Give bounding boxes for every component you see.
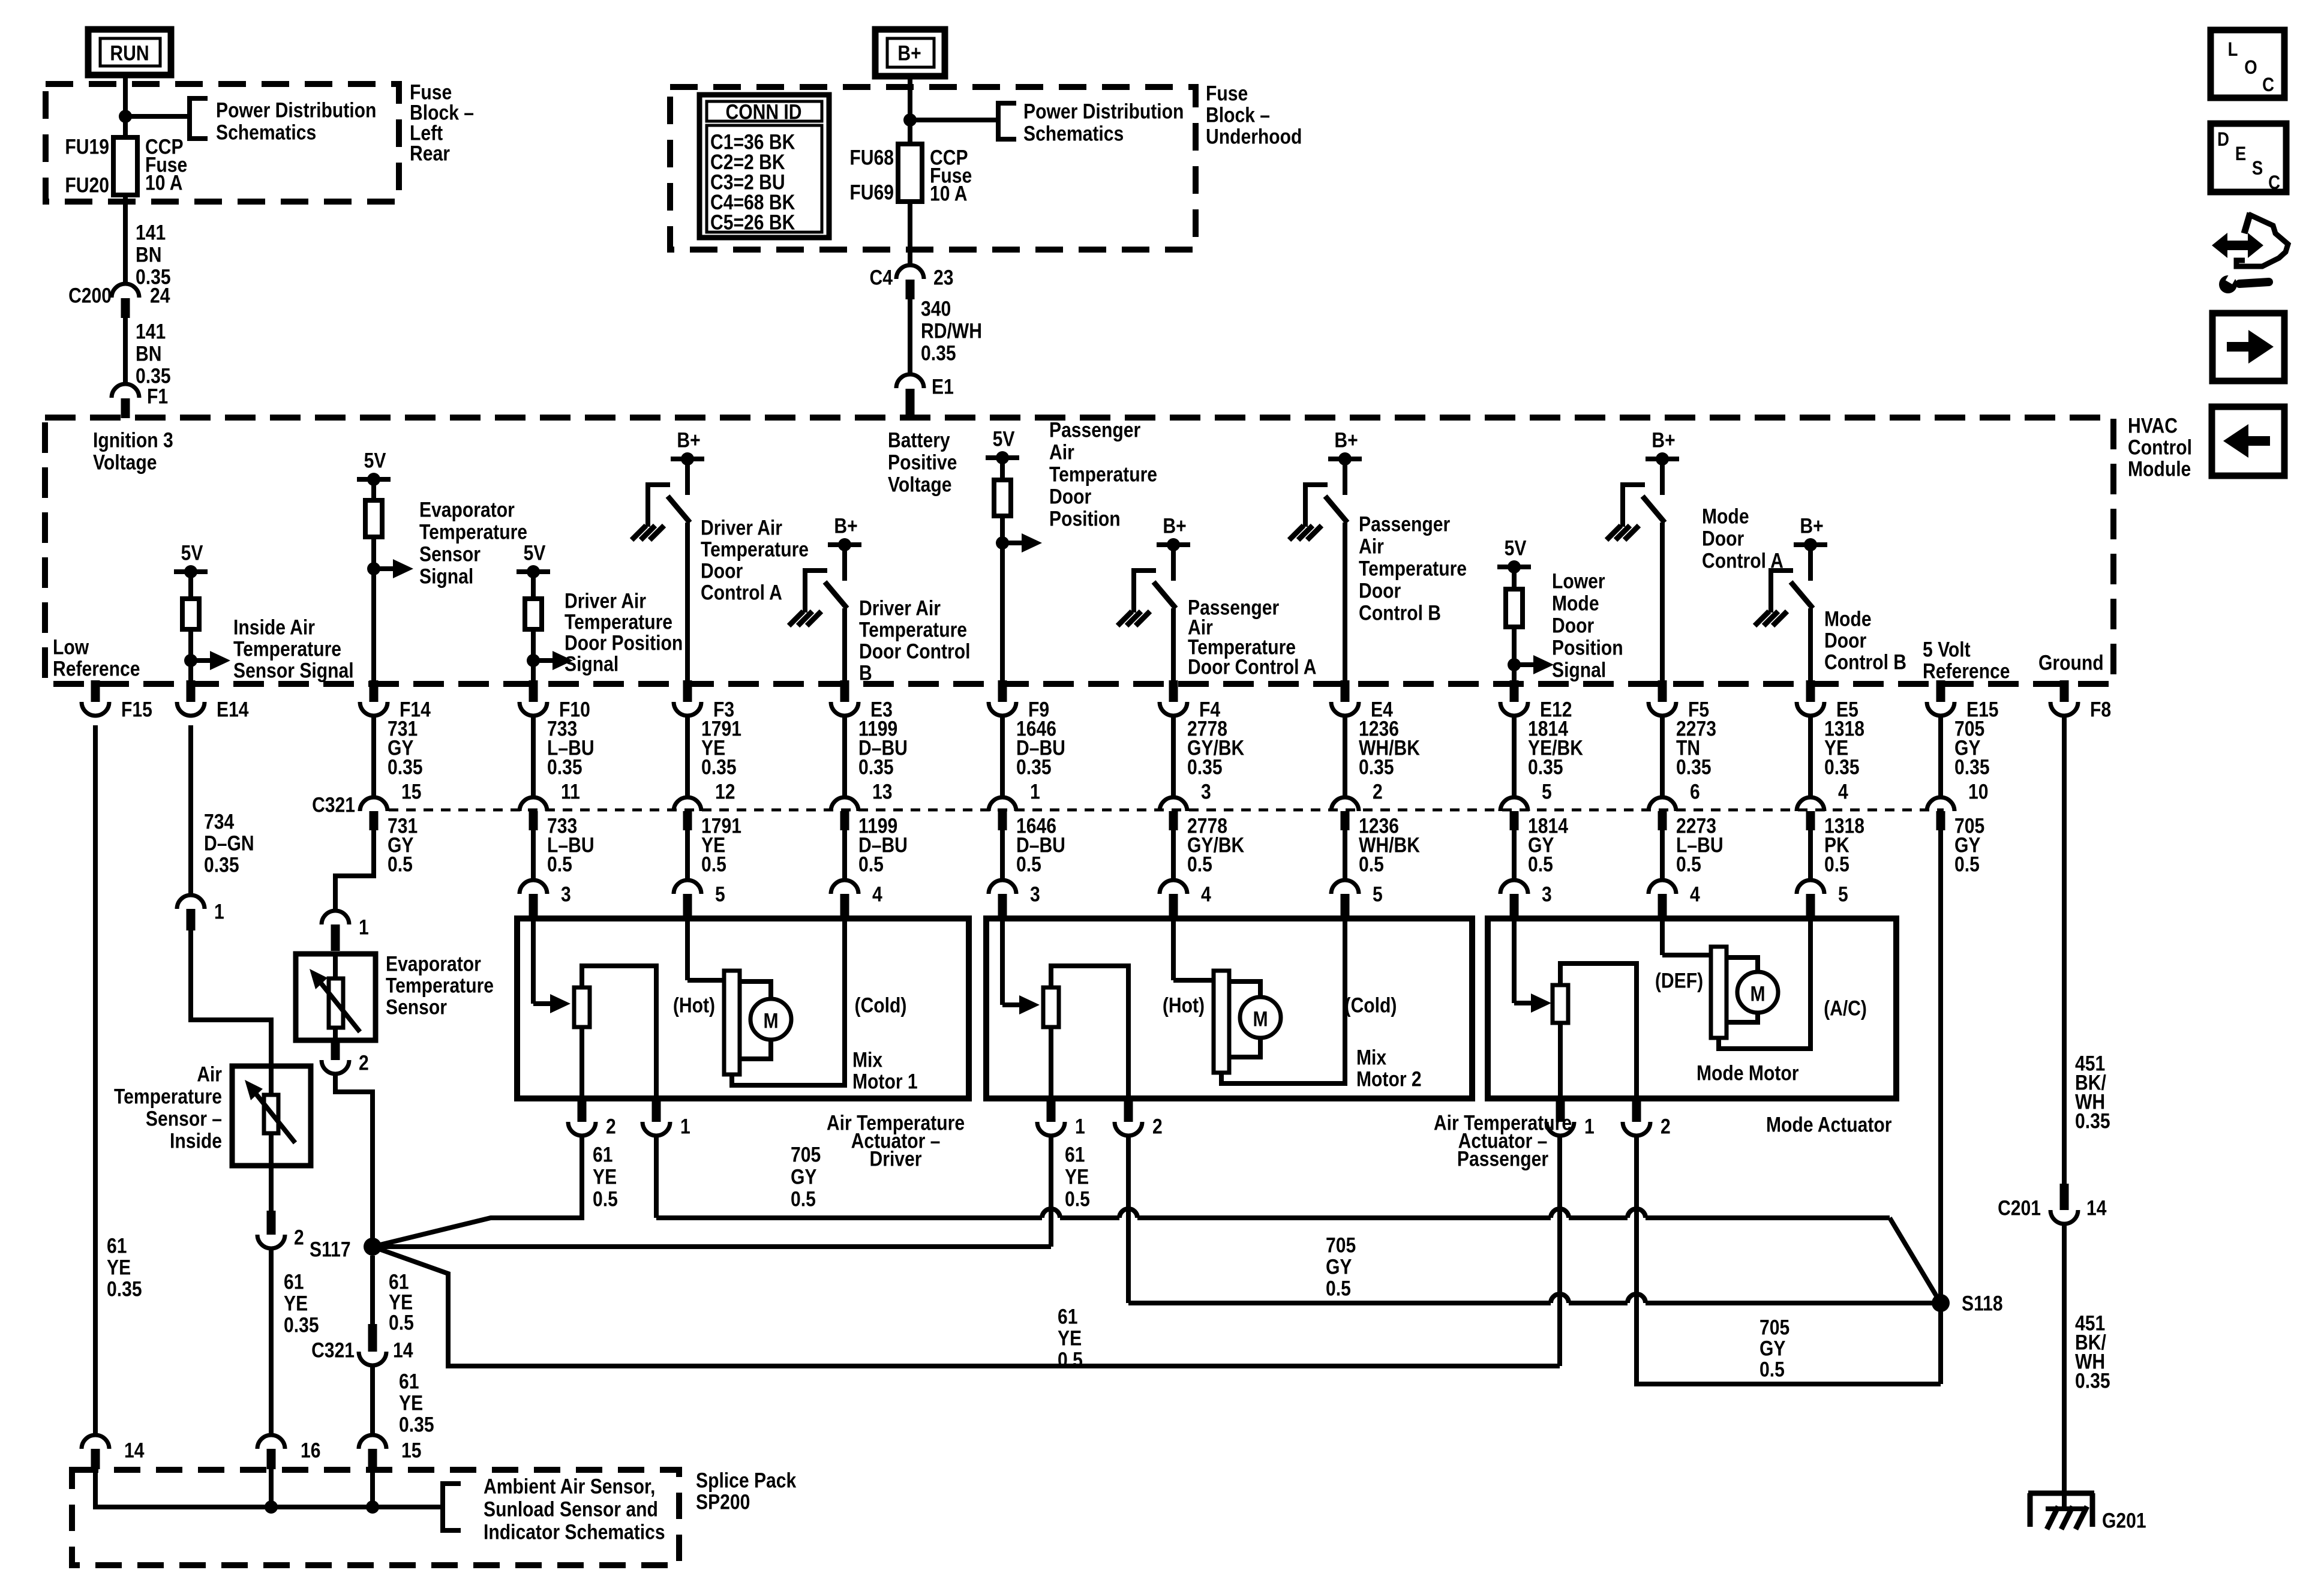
svg-text:0.35: 0.35: [1824, 755, 1860, 779]
svg-text:Inside: Inside: [170, 1128, 222, 1152]
svg-text:B+: B+: [1652, 428, 1675, 452]
svg-text:Mode Motor: Mode Motor: [1697, 1061, 1799, 1085]
svg-text:Sensor: Sensor: [419, 542, 481, 566]
svg-text:0.5: 0.5: [858, 852, 884, 876]
svg-text:Motor 1: Motor 1: [852, 1069, 918, 1093]
svg-text:3: 3: [1201, 779, 1211, 803]
actuator bottom pin 2 (driver): [578, 1100, 587, 1122]
connector C4 pin 23: [896, 265, 924, 279]
connector air temp sensor pin 2: [269, 1166, 274, 1211]
svg-text:RUN: RUN: [110, 41, 149, 65]
svg-text:15: 15: [401, 779, 421, 803]
actuator bottom pin 2 (passenger): [1124, 1100, 1133, 1122]
actuator bottom pin 1 (passenger): [1047, 1100, 1056, 1122]
svg-text:6: 6: [1690, 779, 1700, 803]
actuator pin 5 (mode): [1808, 830, 1813, 880]
svg-text:Power Distribution: Power Distribution: [216, 98, 376, 122]
svg-text:Signal: Signal: [565, 652, 618, 676]
svg-text:B+: B+: [1800, 514, 1823, 538]
wire S117 to passenger pin 1: [373, 1244, 1051, 1249]
svg-text:Passenger: Passenger: [1359, 512, 1450, 536]
svg-text:GY: GY: [791, 1164, 817, 1188]
svg-text:14: 14: [124, 1438, 144, 1462]
actuator pin 3 (driver): [531, 830, 536, 880]
svg-text:0.35: 0.35: [284, 1313, 319, 1337]
svg-text:D–GN: D–GN: [204, 831, 254, 855]
svg-text:10: 10: [1968, 779, 1988, 803]
wire RUN to fuse FU19: [123, 75, 128, 137]
connector C321 pin 11: [531, 715, 536, 798]
svg-text:0.5: 0.5: [1326, 1276, 1351, 1300]
air temperature sensor - inside box: [232, 1066, 311, 1166]
wire C321-15 jog to evap sensor pin 1: [335, 830, 374, 911]
svg-text:0.5: 0.5: [547, 852, 572, 876]
svg-text:14: 14: [393, 1338, 413, 1362]
svg-text:Low: Low: [53, 635, 89, 659]
svg-text:0.35: 0.35: [399, 1412, 434, 1436]
svg-text:0.35: 0.35: [858, 755, 894, 779]
HVAC Control Module dashed box: [45, 418, 2113, 684]
actuator bottom pin 1 (mode): [1556, 1100, 1565, 1122]
connector evap sensor pin 1: [322, 911, 349, 924]
svg-text:Driver Air: Driver Air: [701, 515, 782, 539]
svg-text:Driver Air: Driver Air: [565, 589, 646, 613]
module pin F5: [1658, 680, 1667, 702]
svg-text:0.35: 0.35: [921, 341, 956, 365]
svg-text:61: 61: [107, 1233, 127, 1257]
CONN ID table: [699, 95, 829, 238]
svg-text:Battery: Battery: [888, 428, 950, 452]
svg-text:F1: F1: [147, 384, 168, 408]
svg-text:Driver: Driver: [870, 1146, 922, 1170]
potentiometer (driver actuator): [531, 918, 536, 1004]
svg-text:0.35: 0.35: [1528, 755, 1563, 779]
wire evap pin 2 to S117: [335, 1074, 373, 1238]
svg-text:Reference: Reference: [53, 656, 140, 680]
wire F8 to C201: [2062, 715, 2067, 1184]
svg-text:0.35: 0.35: [1954, 755, 1990, 779]
svg-text:Control A: Control A: [701, 580, 782, 604]
svg-text:1: 1: [680, 1114, 690, 1138]
svg-text:4: 4: [1838, 779, 1848, 803]
wire air sensor pin 2 to SP200 pin 16: [269, 1248, 274, 1435]
wire 141 BN fuse to C200: [123, 195, 128, 284]
connector C321 pin 12: [685, 715, 690, 798]
svg-text:YE: YE: [107, 1255, 131, 1279]
icon DESC: [2211, 124, 2286, 192]
svg-text:Temperature: Temperature: [114, 1084, 222, 1108]
svg-text:Temperature: Temperature: [1359, 556, 1467, 580]
svg-text:1: 1: [214, 899, 224, 923]
connector C321 pin 3: [1171, 715, 1176, 798]
wire to power distribution bracket: [125, 114, 190, 119]
svg-text:(Hot): (Hot): [1163, 993, 1205, 1017]
svg-text:C5=26 BK: C5=26 BK: [710, 210, 795, 234]
svg-text:0.5: 0.5: [1528, 852, 1553, 876]
junction node: [366, 1500, 379, 1514]
splice pack bus wire: [95, 1469, 443, 1507]
svg-text:FU68: FU68: [849, 145, 894, 169]
icon arrow right: [2212, 313, 2284, 381]
icon LOC: [2211, 30, 2284, 98]
svg-text:Door: Door: [1359, 578, 1401, 602]
svg-text:Position: Position: [1049, 506, 1121, 530]
connector C321 pin 4: [1808, 715, 1813, 798]
svg-text:Block –: Block –: [1206, 103, 1270, 127]
svg-text:HVAC: HVAC: [2128, 413, 2178, 437]
svg-text:0.35: 0.35: [204, 852, 239, 876]
svg-text:1: 1: [1075, 1114, 1085, 1138]
svg-text:Lower: Lower: [1552, 569, 1605, 593]
splice pack pin 16: [257, 1435, 285, 1449]
svg-text:705: 705: [1759, 1315, 1789, 1339]
svg-text:(Hot): (Hot): [673, 993, 715, 1017]
svg-text:Air: Air: [197, 1062, 222, 1086]
svg-text:61: 61: [1065, 1142, 1085, 1166]
svg-text:0.5: 0.5: [389, 1310, 414, 1334]
svg-text:Module: Module: [2128, 457, 2191, 481]
svg-text:M: M: [1750, 981, 1765, 1005]
mix motor 2: [1171, 918, 1176, 980]
module pin F9: [998, 680, 1007, 702]
svg-text:0.35: 0.35: [1016, 755, 1052, 779]
svg-text:4: 4: [1201, 882, 1211, 906]
svg-text:1: 1: [1030, 779, 1040, 803]
svg-text:C321: C321: [311, 1338, 355, 1362]
evaporator temperature sensor box: [296, 954, 376, 1040]
svg-text:Voltage: Voltage: [888, 472, 951, 496]
svg-text:B+: B+: [897, 41, 921, 65]
svg-text:Control B: Control B: [1359, 601, 1441, 625]
svg-text:0.5: 0.5: [1058, 1347, 1083, 1371]
svg-text:10 A: 10 A: [930, 181, 967, 205]
svg-text:GY: GY: [1326, 1254, 1352, 1278]
svg-text:GY: GY: [1759, 1336, 1786, 1360]
mix motor 1: [685, 918, 690, 980]
connector C321 pin 13: [842, 715, 847, 798]
wire jog to sensor: [191, 930, 271, 1066]
connector C321 pin 2: [1343, 715, 1347, 798]
bracket Power Distribution Schematics: [998, 103, 1016, 139]
svg-text:4: 4: [1690, 882, 1700, 906]
svg-text:0.5: 0.5: [1676, 852, 1701, 876]
svg-text:0.35: 0.35: [2075, 1368, 2110, 1392]
svg-text:0.35: 0.35: [1676, 755, 1712, 779]
svg-text:2: 2: [606, 1114, 616, 1138]
svg-text:Mix: Mix: [1356, 1045, 1386, 1069]
module pin E4: [1341, 680, 1350, 702]
svg-text:12: 12: [715, 779, 735, 803]
svg-text:E14: E14: [217, 697, 249, 721]
svg-text:L: L: [2228, 39, 2238, 60]
svg-text:S: S: [2252, 158, 2263, 179]
svg-text:0.35: 0.35: [107, 1277, 142, 1301]
svg-text:S117: S117: [310, 1237, 351, 1261]
module pin E12: [1510, 680, 1519, 702]
connector C321 pin 15: [371, 715, 376, 798]
svg-text:B+: B+: [1163, 514, 1186, 538]
svg-text:B+: B+: [1334, 428, 1358, 452]
wire 705 GY diagonal into S118: [1890, 1218, 1941, 1303]
svg-text:Passenger: Passenger: [1049, 418, 1140, 442]
svg-text:Door Control: Door Control: [859, 639, 970, 663]
icon arrow left: [2212, 407, 2284, 476]
svg-text:Power Distribution: Power Distribution: [1023, 99, 1184, 123]
wire E14 to air temp sensor pin 1: [188, 725, 193, 895]
svg-text:Door Control A: Door Control A: [1188, 655, 1316, 679]
variable resistor air temp sensor: [269, 1066, 274, 1095]
svg-text:SP200: SP200: [696, 1490, 750, 1514]
svg-text:M: M: [763, 1008, 778, 1032]
svg-text:CONN ID: CONN ID: [725, 100, 801, 124]
connector air temp sensor pin 1: [177, 895, 205, 909]
actuator pin 4 (passenger): [1171, 830, 1176, 880]
connector C321 dashed line: [389, 809, 1944, 812]
svg-text:C201: C201: [1998, 1196, 2041, 1220]
svg-text:Door: Door: [1552, 613, 1594, 637]
svg-text:Sensor Signal: Sensor Signal: [233, 658, 354, 682]
actuator pin 4 (driver): [842, 830, 847, 880]
junction node: [265, 1500, 278, 1514]
actuator pin 3 (mode): [1512, 830, 1517, 880]
svg-text:Position: Position: [1552, 635, 1623, 659]
svg-text:0.5: 0.5: [1824, 852, 1849, 876]
svg-text:Mode Actuator: Mode Actuator: [1766, 1112, 1892, 1136]
svg-text:10 A: 10 A: [145, 170, 182, 194]
splice S117: [364, 1238, 382, 1256]
svg-text:0.35: 0.35: [1187, 755, 1223, 779]
svg-text:0.5: 0.5: [791, 1187, 816, 1211]
svg-text:0.35: 0.35: [701, 755, 737, 779]
svg-text:1: 1: [359, 915, 369, 939]
svg-text:5: 5: [1373, 882, 1383, 906]
svg-text:0.5: 0.5: [388, 852, 413, 876]
fuse FU19/FU20 CCP Fuse 10 A: [113, 137, 137, 195]
svg-text:B: B: [859, 661, 872, 685]
svg-text:Signal: Signal: [419, 564, 473, 588]
module pin E1: [896, 374, 924, 388]
svg-text:(DEF): (DEF): [1655, 968, 1703, 992]
svg-text:Temperature: Temperature: [233, 637, 341, 661]
module pin F8: [2060, 680, 2069, 702]
connector evap sensor pin 2: [331, 1040, 340, 1060]
module pin F10: [529, 680, 538, 702]
svg-text:0.35: 0.35: [2075, 1109, 2110, 1133]
svg-text:340: 340: [921, 296, 951, 320]
svg-text:2: 2: [1661, 1114, 1671, 1138]
actuator pin 4 (mode): [1660, 830, 1665, 880]
svg-text:16: 16: [301, 1438, 320, 1462]
svg-text:5V: 5V: [524, 541, 546, 565]
power source RUN: [88, 29, 171, 75]
svg-text:Positive: Positive: [888, 450, 957, 474]
svg-text:Schematics: Schematics: [216, 120, 316, 144]
connector C200 pin 24: [112, 284, 139, 298]
svg-text:Motor 2: Motor 2: [1356, 1067, 1422, 1091]
svg-text:5V: 5V: [1505, 536, 1527, 560]
svg-text:5V: 5V: [993, 427, 1015, 451]
svg-text:23: 23: [933, 265, 953, 289]
svg-text:BN: BN: [136, 242, 161, 266]
svg-text:61: 61: [1058, 1304, 1077, 1328]
svg-text:Sensor –: Sensor –: [146, 1106, 222, 1130]
power source B+: [875, 29, 945, 76]
svg-text:Sensor: Sensor: [386, 995, 447, 1019]
svg-text:Ambient Air Sensor,: Ambient Air Sensor,: [484, 1474, 655, 1498]
svg-text:E1: E1: [932, 374, 954, 398]
svg-text:Ignition 3: Ignition 3: [93, 428, 173, 452]
module pin F3: [683, 680, 692, 702]
svg-text:YE: YE: [399, 1391, 423, 1415]
svg-text:0.35: 0.35: [1359, 755, 1394, 779]
svg-text:14: 14: [2086, 1196, 2106, 1220]
svg-text:YE: YE: [284, 1291, 308, 1315]
svg-text:Signal: Signal: [1552, 658, 1606, 682]
junction node: [903, 113, 917, 127]
svg-text:141: 141: [136, 220, 166, 244]
svg-text:734: 734: [204, 809, 234, 833]
wire E15 705 GY down to S118: [1938, 830, 1943, 1384]
svg-text:2: 2: [1373, 779, 1383, 803]
fuse block - underhood dashed box: [670, 87, 1196, 250]
module pin E14: [187, 680, 196, 702]
svg-text:Mix: Mix: [852, 1047, 882, 1071]
svg-text:Temperature: Temperature: [701, 537, 809, 561]
svg-text:0.35: 0.35: [388, 755, 423, 779]
svg-text:4: 4: [872, 882, 882, 906]
module pin E15: [1936, 680, 1945, 702]
svg-text:C200: C200: [68, 283, 112, 307]
connector C321 pin 5: [1512, 715, 1517, 798]
svg-text:Mode: Mode: [1552, 591, 1599, 615]
svg-text:FU19: FU19: [65, 134, 109, 158]
svg-text:0.5: 0.5: [1016, 852, 1041, 876]
svg-text:O: O: [2244, 57, 2257, 78]
svg-text:3: 3: [1542, 882, 1552, 906]
module pin F14: [370, 680, 379, 702]
svg-text:0.5: 0.5: [701, 852, 726, 876]
svg-text:Fuse: Fuse: [1206, 81, 1248, 105]
svg-text:Passenger: Passenger: [1457, 1146, 1548, 1170]
svg-text:Rear: Rear: [410, 141, 450, 165]
svg-text:Air: Air: [1049, 440, 1074, 464]
svg-text:2: 2: [1152, 1114, 1163, 1138]
wire C321-14 to SP200 pin 15: [370, 1365, 375, 1435]
svg-text:Temperature: Temperature: [419, 520, 527, 544]
svg-text:Voltage: Voltage: [93, 450, 157, 474]
svg-text:Schematics: Schematics: [1023, 121, 1124, 145]
air temperature actuator - passenger box: [986, 918, 1472, 1098]
module pin E5: [1806, 680, 1815, 702]
svg-text:5: 5: [1542, 779, 1552, 803]
svg-text:C4: C4: [870, 265, 893, 289]
svg-text:Control B: Control B: [1824, 650, 1906, 674]
svg-text:Indicator Schematics: Indicator Schematics: [484, 1520, 665, 1544]
svg-text:M: M: [1253, 1007, 1268, 1031]
splice pack pin 15: [359, 1435, 386, 1449]
svg-text:Temperature: Temperature: [386, 973, 494, 997]
svg-text:Inside Air: Inside Air: [233, 615, 315, 639]
svg-text:0.5: 0.5: [1359, 852, 1384, 876]
svg-text:Door: Door: [701, 559, 743, 583]
svg-text:Temperature: Temperature: [565, 610, 672, 634]
svg-text:61: 61: [284, 1269, 304, 1293]
ground G201: [2062, 1224, 2067, 1509]
module pin F15: [91, 680, 100, 702]
svg-text:Control: Control: [2128, 435, 2192, 459]
connector C321 pin 10: [1938, 715, 1943, 798]
svg-text:Door: Door: [1702, 526, 1744, 550]
bracket Power Distribution Schematics: [190, 98, 208, 139]
svg-text:0.5: 0.5: [1187, 852, 1212, 876]
svg-text:705: 705: [791, 1142, 821, 1166]
svg-text:C321: C321: [312, 792, 355, 816]
svg-text:2: 2: [359, 1050, 369, 1074]
wire passenger pin 2 705 GY to S118: [1126, 1135, 1131, 1303]
svg-text:Reference: Reference: [1923, 659, 2010, 683]
svg-text:3: 3: [561, 882, 571, 906]
svg-text:BN: BN: [136, 341, 161, 365]
module pin F1: [112, 384, 139, 398]
svg-text:RD/WH: RD/WH: [921, 319, 982, 343]
svg-text:Temperature: Temperature: [859, 617, 967, 641]
svg-text:Driver Air: Driver Air: [859, 596, 941, 620]
splice pack pin 14: [82, 1435, 109, 1449]
svg-text:Underhood: Underhood: [1206, 124, 1302, 148]
svg-text:Mode: Mode: [1824, 607, 1872, 631]
svg-text:YE: YE: [593, 1164, 617, 1188]
potentiometer (mode actuator): [1512, 918, 1517, 1003]
connector C321 pin 14 (lower): [370, 1256, 375, 1324]
svg-text:61: 61: [593, 1142, 612, 1166]
wire B+ to fuse FU68: [908, 76, 912, 144]
connector C321 pin 1: [1000, 715, 1005, 798]
splice S118: [1932, 1294, 1950, 1312]
module pin F4: [1169, 680, 1178, 702]
svg-text:15: 15: [401, 1438, 421, 1462]
icon service animal with arrow and wrench: [2212, 233, 2263, 258]
svg-text:YE: YE: [1058, 1326, 1082, 1350]
svg-text:FU69: FU69: [849, 180, 894, 204]
svg-text:B+: B+: [834, 514, 857, 538]
svg-text:S118: S118: [1962, 1291, 2003, 1315]
svg-text:1: 1: [1584, 1114, 1595, 1138]
svg-text:E: E: [2235, 143, 2246, 164]
svg-text:Door: Door: [1824, 628, 1866, 652]
wire driver pin 1 705 GY: [654, 1135, 659, 1218]
svg-text:61: 61: [399, 1369, 419, 1393]
svg-text:YE: YE: [1065, 1164, 1089, 1188]
actuator pin 5 (passenger): [1343, 830, 1347, 880]
svg-text:Sunload Sensor and: Sunload Sensor and: [484, 1497, 658, 1521]
fuse FU68/FU69 CCP Fuse 10 A: [898, 144, 922, 202]
svg-text:5 Volt: 5 Volt: [1923, 637, 1971, 661]
svg-text:G201: G201: [2102, 1508, 2146, 1532]
wire fuse to C4: [908, 202, 912, 265]
svg-text:C: C: [2262, 74, 2274, 95]
svg-text:13: 13: [872, 779, 892, 803]
svg-text:0.5: 0.5: [1065, 1187, 1090, 1211]
svg-text:705: 705: [1326, 1233, 1356, 1257]
junction node: [119, 110, 132, 123]
svg-text:Evaporator: Evaporator: [419, 497, 515, 521]
svg-text:3: 3: [1030, 882, 1040, 906]
actuator bottom pin 2 (mode): [1632, 1100, 1641, 1122]
svg-text:Air: Air: [1359, 534, 1384, 558]
connector C201 pin 14: [2060, 1184, 2069, 1210]
wire 705 GY to S118 with hops: [656, 1215, 1042, 1220]
svg-text:D: D: [2217, 129, 2229, 150]
